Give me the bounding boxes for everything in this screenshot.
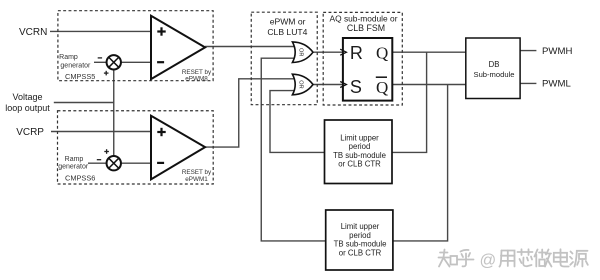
svg-text:VCRN: VCRN bbox=[19, 27, 47, 38]
svg-text:period: period bbox=[349, 142, 371, 151]
svg-text:ePWM or: ePWM or bbox=[270, 16, 306, 26]
svg-text:period: period bbox=[349, 231, 371, 240]
svg-text:CLB LUT4: CLB LUT4 bbox=[267, 27, 307, 37]
svg-text:PWML: PWML bbox=[542, 79, 571, 90]
svg-text:S: S bbox=[350, 77, 362, 97]
svg-text:OR: OR bbox=[298, 48, 304, 56]
svg-text:Ramp: Ramp bbox=[65, 156, 84, 163]
svg-text:ePWM1: ePWM1 bbox=[185, 176, 208, 183]
svg-text:CLB FSM: CLB FSM bbox=[347, 23, 385, 33]
svg-text:or CLB CTR: or CLB CTR bbox=[339, 249, 382, 258]
svg-text:@: @ bbox=[480, 251, 497, 269]
svg-text:Q: Q bbox=[376, 78, 388, 97]
svg-text:DB: DB bbox=[489, 60, 500, 69]
svg-text:TB sub-module: TB sub-module bbox=[334, 240, 387, 249]
svg-text:Limit upper: Limit upper bbox=[341, 222, 380, 231]
svg-text:Ramp: Ramp bbox=[59, 54, 78, 61]
svg-text:AQ sub-module or: AQ sub-module or bbox=[330, 14, 398, 24]
svg-text:or CLB CTR: or CLB CTR bbox=[338, 160, 381, 169]
svg-text:R: R bbox=[350, 43, 363, 63]
svg-text:CMPSS5: CMPSS5 bbox=[65, 72, 95, 81]
svg-text:PWMH: PWMH bbox=[542, 46, 572, 57]
svg-text:CMPSS6: CMPSS6 bbox=[65, 174, 95, 183]
svg-text:VCRP: VCRP bbox=[16, 127, 44, 138]
svg-text:loop output: loop output bbox=[5, 103, 50, 113]
svg-text:Q: Q bbox=[376, 44, 388, 63]
svg-text:Sub-module: Sub-module bbox=[474, 70, 515, 79]
svg-text:generator: generator bbox=[60, 63, 91, 70]
svg-text:OR: OR bbox=[298, 80, 304, 88]
svg-text:TB sub-module: TB sub-module bbox=[333, 151, 386, 160]
svg-text:Limit upper: Limit upper bbox=[340, 133, 379, 142]
svg-text:generator: generator bbox=[58, 163, 89, 170]
svg-text:Voltage: Voltage bbox=[12, 92, 42, 102]
svg-text:ePWM8: ePWM8 bbox=[185, 76, 208, 83]
